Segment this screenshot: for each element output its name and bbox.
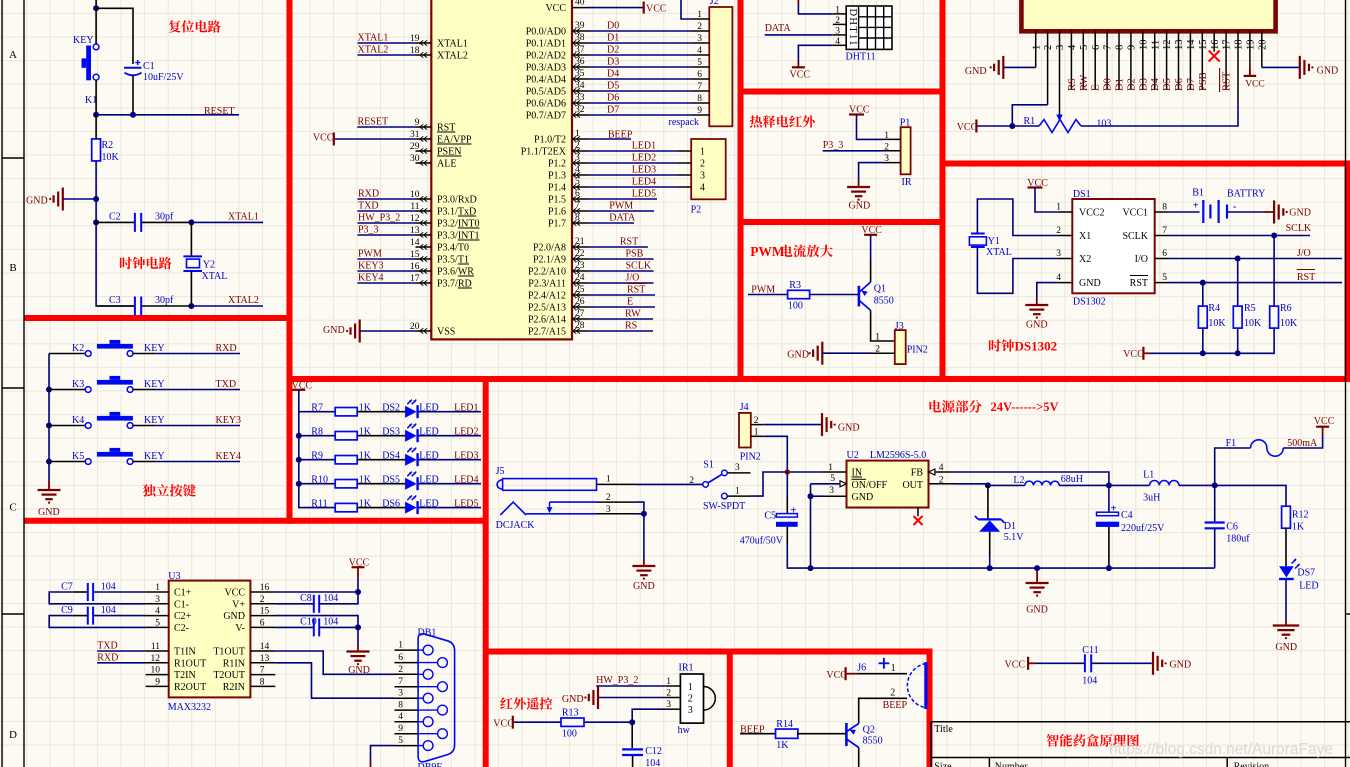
node C2 row junction [93,219,99,225]
svg-text:VCC: VCC [646,4,667,15]
wire buzzer pin2 to Q2 collector [859,698,907,723]
capacitor C3 [134,297,136,316]
resistor R2 [92,139,101,161]
svg-text:B: B [9,262,16,274]
svg-text:12: 12 [1162,40,1173,51]
svg-text:LED3: LED3 [454,450,478,461]
svg-text:Y1: Y1 [988,236,1000,247]
svg-text:104: 104 [323,617,338,628]
wire RESET net [96,114,239,116]
led DS7 [1279,566,1294,577]
wire R5 top [1237,259,1239,307]
capacitor C8 [275,603,314,605]
wire Q1 collector to J3 pin1 [871,310,895,341]
connector P1 pyro [901,127,911,174]
wire GND to IR1 pin2 [598,697,666,699]
wire to R12 [1215,485,1286,506]
svg-text:24: 24 [575,273,585,283]
svg-text:BATTRY: BATTRY [1227,189,1265,200]
svg-text:VSS: VSS [437,327,455,338]
power symbol VCC under LCD pin19 [1249,65,1251,76]
svg-text:6: 6 [697,70,702,80]
svg-text:P0.0/AD0: P0.0/AD0 [526,27,566,38]
wire keys gnd stem [48,480,50,490]
svg-text:1: 1 [666,677,671,687]
svg-text:https://blog.csdn.net/AuroraFa: https://blog.csdn.net/AuroraFaye [1109,741,1333,758]
wire GND pin15 [275,616,358,628]
svg-text:RST: RST [437,123,455,134]
svg-text:RW: RW [625,309,641,320]
svg-text:D0: D0 [1103,78,1114,91]
power symbol VCC output [1316,426,1329,428]
svg-text:D0: D0 [607,21,619,32]
node D1 rail junction [987,565,993,571]
wire DHT11 pin4 to VCC below [798,45,832,62]
wire top net to key/C1 [95,0,97,8]
wire R2 bottom to gnd junction [95,161,97,199]
wire C3 left lead [96,305,134,307]
svg-text:103: 103 [1096,119,1111,130]
svg-text:KEY: KEY [144,415,165,426]
wire R9 left [299,459,336,461]
power stub VCC top of DHT11 [797,0,799,5]
frame zone tick C/D left [2,613,24,615]
svg-text:2: 2 [835,16,840,26]
svg-text:16: 16 [260,583,270,593]
svg-text:1K: 1K [1292,522,1305,533]
node XTAL1 junction [188,219,194,225]
svg-text:29: 29 [410,142,420,152]
section title 红外遥控 [500,697,513,709]
svg-text:C9: C9 [61,605,73,616]
svg-text:BEEP: BEEP [883,700,908,711]
svg-text:P1: P1 [900,117,911,128]
svg-text:D6: D6 [1174,78,1185,91]
svg-text:GND: GND [26,196,48,207]
svg-text:RST: RST [627,285,645,296]
svg-text:1: 1 [828,463,833,473]
svg-text:2: 2 [890,688,895,699]
red divider V mcu right [738,0,744,382]
svg-text:PSB: PSB [1198,72,1209,91]
svg-text:2: 2 [260,595,265,605]
red divider H DHT11 bottom [741,89,943,95]
svg-text:3: 3 [829,486,834,496]
wire C2 right to XTAL1 node [141,221,191,223]
wire D5 bus [589,90,693,92]
svg-text:MAX3232: MAX3232 [168,702,211,713]
svg-text:L2: L2 [1013,475,1024,486]
svg-text:D2: D2 [607,45,619,56]
wire up to fuse [1215,448,1251,485]
svg-text:GND: GND [1079,278,1101,289]
crystal Y1 [971,233,985,235]
svg-text:R8: R8 [311,426,323,437]
svg-text:DATA: DATA [609,213,636,224]
svg-text:C2-: C2- [174,623,189,634]
svg-text:GND: GND [38,507,60,518]
svg-text:GND: GND [838,423,860,434]
svg-text:P0.5/AD5: P0.5/AD5 [526,87,566,98]
node key top junction [93,5,99,11]
svg-text:5: 5 [398,736,403,746]
U2 FB stub [929,469,935,475]
wire LED5 [589,198,658,200]
chip U3 MAX3232 body [169,581,251,698]
svg-text:DS4: DS4 [382,450,400,461]
svg-text:30: 30 [410,154,420,164]
svg-text:4: 4 [398,712,403,722]
svg-text:R3: R3 [789,280,801,291]
svg-text:P0.2/AD2: P0.2/AD2 [526,51,566,62]
connector DB1 DB9F shape [418,634,455,762]
svg-text:C1: C1 [143,61,155,72]
svg-text:39: 39 [575,21,585,31]
svg-text:K4: K4 [72,415,84,426]
svg-text:TXD: TXD [97,640,118,651]
svg-text:5: 5 [575,177,580,187]
svg-text:2: 2 [700,159,705,170]
DB9 pin stubs and holes [395,649,419,651]
svg-text:14: 14 [1186,39,1197,50]
svg-text:K2: K2 [72,343,84,354]
svg-text:IR: IR [902,177,912,188]
svg-text:P3_3: P3_3 [358,225,379,236]
wire K5 right [133,461,156,463]
wire R8 to DS3 [357,435,405,437]
svg-text:VCC: VCC [313,133,334,144]
svg-text:1: 1 [1031,45,1042,50]
DHT11 pin stubs [833,14,846,45]
svg-text:J3: J3 [895,321,904,332]
svg-text:13: 13 [1174,40,1185,51]
svg-text:3: 3 [575,153,580,163]
wire LED5 net [418,507,481,509]
led DS2 [405,406,417,418]
svg-text:104: 104 [645,758,660,767]
svg-text:VCC: VCC [224,588,245,599]
red divider H power top [287,376,1350,382]
svg-text:GND: GND [1026,605,1048,616]
svg-text:P3.5/T1: P3.5/T1 [437,255,469,266]
svg-text:P2.2/A10: P2.2/A10 [528,267,566,278]
wire R10 to DS5 [357,483,405,485]
svg-text:D: D [9,729,17,741]
wire J5 pin1 to switch [635,483,703,485]
connector P2 [691,139,726,199]
svg-text:104: 104 [1082,676,1097,687]
wire Q2 collector down [858,748,860,767]
wire LED4 to P2 [589,186,679,188]
wire LED1 net [418,411,481,413]
wire junction to C1 top [96,8,133,64]
svg-text:7: 7 [575,201,580,211]
wire crystal top lead [190,222,192,256]
svg-text:7: 7 [398,677,403,687]
svg-text:R6: R6 [1280,303,1292,314]
svg-text:3: 3 [1055,45,1066,50]
node R5 rail junction [1235,350,1241,356]
wire LCD pin2 elbow to VCC rail [1012,105,1047,126]
svg-text:C1+: C1+ [174,588,192,599]
red divider H reset/clock bottom [24,315,293,321]
svg-text:D7: D7 [1186,78,1197,91]
svg-text:C8: C8 [300,593,312,604]
svg-text:LED1: LED1 [454,402,478,413]
svg-text:5.1V: 5.1V [1004,532,1025,543]
svg-text:P2.1/A9: P2.1/A9 [533,255,566,266]
svg-text:R10: R10 [311,474,328,485]
svg-text:23: 23 [575,261,585,271]
svg-text:P2: P2 [691,205,702,216]
wire PWM to R3 [748,294,787,296]
svg-text:R11: R11 [311,498,327,509]
inductor L1 [1150,481,1179,486]
svg-text:GND: GND [1169,659,1191,670]
svg-text:PWM: PWM [358,249,382,260]
svg-text:2: 2 [754,416,759,426]
svg-text:J6: J6 [857,663,866,674]
svg-text:GND: GND [965,66,987,77]
svg-text:P3.7/RD: P3.7/RD [437,279,472,290]
wire D0 bus [589,30,693,32]
svg-text:4: 4 [155,607,160,617]
svg-text:Y2: Y2 [203,259,215,270]
svg-text:U3: U3 [168,571,180,582]
wire LED2 net [418,435,481,437]
svg-text:XTAL2: XTAL2 [358,45,389,56]
svg-text:DS7: DS7 [1297,568,1315,579]
svg-text:9: 9 [155,677,160,687]
svg-text:VCC: VCC [790,70,811,81]
svg-text:2: 2 [666,689,671,699]
svg-text:1: 1 [891,663,896,674]
svg-text:VCC: VCC [1005,659,1026,670]
svg-text:26: 26 [575,297,585,307]
wire R11 to DS6 [357,507,405,509]
svg-text:B1: B1 [1192,188,1204,199]
capacitor C4 electrolytic [1108,485,1110,512]
svg-text:5: 5 [697,58,702,68]
ground symbol keys GND [38,489,61,491]
mcu right pin stubs and numbers [572,8,589,334]
R1 wiper arrow from LCD pin3 [1059,113,1061,117]
svg-text:J/O: J/O [1297,248,1311,259]
svg-text:2: 2 [688,694,693,705]
svg-text:104: 104 [101,582,116,593]
resistor R13 [561,718,584,726]
svg-text:R5: R5 [1244,303,1256,314]
svg-text:DB9F: DB9F [418,762,443,767]
capacitor C12 [622,748,643,750]
svg-text:4: 4 [1056,273,1061,283]
wire pin40 to VCC [589,7,644,9]
svg-text:SW-SPDT: SW-SPDT [703,501,745,512]
J5 pin stubs [597,483,636,485]
svg-text:RXD: RXD [97,652,118,663]
label + buzzer [879,662,890,664]
node C4 junction [1106,482,1112,488]
wire SCLK net [1169,235,1310,237]
svg-text:HW_P3_2: HW_P3_2 [358,213,400,224]
wire LED3 net [418,459,481,461]
wire T1OUT to DB9 pin2 [275,651,394,674]
svg-text:-: - [1233,202,1236,213]
wire OUT to D1 node [954,483,988,485]
svg-text:D3: D3 [1138,78,1149,91]
wire PWM at P1.6 [589,210,655,212]
svg-text:9: 9 [1127,45,1138,50]
svg-text:KEY: KEY [144,343,165,354]
svg-text:VCC: VCC [493,718,514,729]
svg-text:GND: GND [223,611,245,622]
svg-text:V+: V+ [232,599,245,610]
svg-text:X1: X1 [1079,231,1091,242]
wire J/O at P2.x [589,282,654,284]
svg-text:KEY4: KEY4 [358,273,384,284]
wire K5 left [49,461,85,463]
wire C12 bottom [632,756,634,767]
svg-text:P3.2/INT0: P3.2/INT0 [437,219,480,230]
title block border lines [931,721,1350,723]
wire K2 right [133,353,156,355]
ground symbol J4 GND [821,413,823,436]
svg-text:32: 32 [575,105,585,115]
svg-text:36: 36 [575,57,585,67]
capacitor C5 electrolytic [786,472,788,497]
wire RST at P2.x [589,246,648,248]
wire BEEP [589,138,632,140]
node SCLK junction [1271,233,1277,239]
svg-text:P1.2: P1.2 [548,159,566,170]
svg-text:D4: D4 [1150,77,1161,91]
key switch KEY (S-K1) vertical pushbutton [93,44,99,50]
sheet frame right line [1345,0,1347,767]
svg-text:3: 3 [606,505,611,515]
resistor R12 [1282,506,1291,528]
capacitor C7 loop [93,591,146,593]
svg-text:10K: 10K [1208,318,1226,329]
wire PWM to mcu [358,258,416,260]
svg-text:GND: GND [1275,642,1297,653]
svg-text:5: 5 [1079,45,1090,50]
wire u3 gnd stem [357,627,359,645]
transistor Q1 8550 [858,286,861,307]
U3 right pin stubs [250,592,275,686]
wire DHT11 pin1 to VCC top [798,5,832,14]
svg-text:PIN2: PIN2 [907,345,928,356]
svg-text:X2: X2 [1079,254,1091,265]
node key bus junction K4 [46,423,52,429]
svg-text:2: 2 [1043,45,1054,50]
svg-text:22: 22 [575,249,585,259]
wire gnd to J3 pin2 [822,352,871,354]
svg-text:SCLK: SCLK [626,261,652,272]
red divider H DS1302 top [943,161,1350,167]
svg-text:P3.6/WR: P3.6/WR [437,267,474,278]
svg-text:10K: 10K [1244,318,1262,329]
svg-text:25: 25 [575,285,585,295]
svg-text:LED2: LED2 [454,426,478,437]
svg-text:R1IN: R1IN [223,658,245,669]
svg-text:DATA: DATA [765,23,792,34]
wire LED1 to P2 [589,150,679,152]
svg-text:40: 40 [575,0,585,8]
led DS6 [405,502,417,514]
svg-text:100: 100 [562,729,577,740]
svg-text:30pf: 30pf [155,212,174,223]
svg-text:3: 3 [884,154,889,164]
ground symbol power rail GND [1036,568,1038,583]
svg-text:1: 1 [835,5,840,15]
node RST junction [1200,280,1206,286]
svg-text:LED5: LED5 [632,189,656,200]
wire VCC to R13 [514,721,561,723]
svg-text:38: 38 [575,33,585,43]
svg-text:20: 20 [1257,40,1268,51]
svg-text:+: + [1193,201,1199,212]
svg-text:E: E [1091,85,1102,91]
svg-text:15: 15 [260,607,270,617]
svg-text:2: 2 [398,665,403,675]
resistor pack connector J2 [709,7,732,126]
svg-text:P0.4/AD4: P0.4/AD4 [526,75,566,86]
svg-text:VCC: VCC [1123,349,1144,360]
sheet frame left inner line [23,0,25,767]
wire VCC to P1 pin1 [857,115,883,140]
svg-text:5: 5 [155,618,160,628]
svg-text:R2OUT: R2OUT [174,682,206,693]
dc jack J5 [497,480,503,489]
svg-text:IN: IN [852,468,863,479]
mcu left pin stubs and numbers [416,40,432,333]
wire LED4 net [418,483,481,485]
svg-text:8550: 8550 [863,736,883,747]
wire R7 to DS2 [357,411,405,413]
svg-text:R12: R12 [1292,510,1309,521]
svg-text:XTAL1: XTAL1 [228,212,259,223]
ground symbol GND left of R2 [62,188,64,211]
svg-text:12: 12 [151,654,161,664]
resistor R11 [335,503,357,511]
svg-text:RXD: RXD [216,343,237,354]
svg-text:3: 3 [1056,249,1061,259]
wire key bottom lead to RESET node [95,80,97,115]
svg-text:VCC: VCC [957,122,978,133]
wire DB9 pin5 to gnd below [371,746,395,762]
svg-text:D4: D4 [607,69,619,80]
wire TXD to T1IN [97,650,145,652]
svg-text:GND: GND [852,492,874,503]
wire J2 pin1 to VCC above [681,0,692,19]
svg-text:P1.1/T2EX: P1.1/T2EX [521,147,567,158]
svg-text:R7: R7 [311,402,323,413]
svg-text:100: 100 [788,301,803,312]
svg-text:P1.4: P1.4 [548,183,566,194]
IR1 pin stubs [666,686,681,709]
svg-text:2: 2 [1056,226,1061,236]
svg-text:6: 6 [575,189,580,199]
svg-text:2: 2 [884,142,889,152]
wire C6 top [1214,485,1216,521]
wire D1 bottom to rail [989,532,991,557]
svg-text:P1.5: P1.5 [548,195,566,206]
svg-text:C12: C12 [645,746,662,757]
P2 pin stubs [678,151,691,187]
svg-text:LED5: LED5 [454,498,478,509]
svg-text:220uf/25V: 220uf/25V [1121,523,1165,534]
svg-text:P3.1/TxD: P3.1/TxD [437,207,476,218]
